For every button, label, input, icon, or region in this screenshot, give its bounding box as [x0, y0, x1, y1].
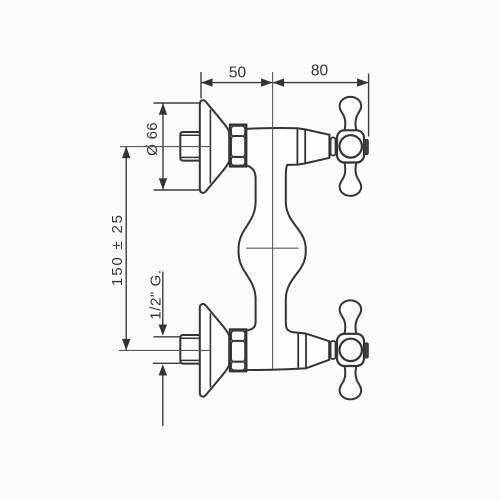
- junction knob: [331, 341, 336, 359]
- 150 dim line: [125, 147, 127, 351]
- flange internal line bottom housing: [297, 333, 299, 369]
- flange internal line top housing: [296, 128, 298, 164]
- arrow 50 left: [201, 78, 213, 86]
- Ø66 extension top: [154, 102, 201, 104]
- junction knob: [331, 138, 336, 156]
- arrow 1/2G down: [159, 325, 167, 336]
- arrow 80 left: [273, 78, 285, 86]
- Ø66 extension bottom: [154, 189, 200, 191]
- extension line left (bell top tangent): [200, 72, 202, 99]
- dark end cap: [364, 343, 369, 358]
- hub: [337, 334, 364, 366]
- 1/2G extension at pipe top: [154, 336, 181, 338]
- top pipe 1/2G: [180, 132, 200, 161]
- arrow 150 up: [122, 147, 130, 159]
- vertical axis: [272, 72, 274, 369]
- hub inner circle: [340, 135, 362, 157]
- arrowheads: [122, 78, 369, 375]
- arrow Ø66 up: [159, 103, 167, 115]
- svg-text:80: 80: [311, 63, 329, 80]
- arrow 50 right: [261, 78, 273, 86]
- top connection centerline: [120, 146, 211, 148]
- bottom bell escutcheon: [200, 304, 229, 397]
- hub inner circle: [340, 339, 362, 361]
- dark end cap: [364, 140, 369, 155]
- dim line 50/80: [201, 82, 369, 84]
- spoke up + knob: [340, 300, 362, 334]
- 1/2G leader shaft down: [162, 272, 164, 328]
- svg-text:1/2" G.: 1/2" G.: [148, 269, 165, 319]
- body casting outline (housings + neck + bulge): [239, 128, 330, 370]
- extension line right (handle): [368, 74, 370, 137]
- arrow 1/2G up: [159, 364, 167, 375]
- spoke up + knob: [340, 97, 362, 131]
- bottom connection centerline: [119, 349, 211, 351]
- spoke down + knob: [340, 365, 362, 399]
- Ø66 dim line: [162, 103, 164, 190]
- middle tick: [246, 247, 299, 249]
- arrow 80 right: [357, 78, 369, 86]
- spoke down + knob: [340, 162, 362, 196]
- hub: [337, 130, 364, 162]
- bottom hex nut: [230, 330, 246, 372]
- svg-text:150 ± 25: 150 ± 25: [109, 213, 126, 286]
- 1/2G extension at pipe bottom: [153, 362, 180, 364]
- bottom pipe 1/2G: [180, 335, 200, 364]
- top bell escutcheon: [200, 100, 229, 193]
- top hex nut: [230, 125, 246, 167]
- 1/2G lower shaft: [162, 373, 164, 426]
- arrow Ø66 down: [159, 178, 167, 190]
- svg-text:Ø 66: Ø 66: [144, 122, 161, 156]
- arrow 150 down: [122, 339, 130, 351]
- svg-text:50: 50: [229, 65, 247, 82]
